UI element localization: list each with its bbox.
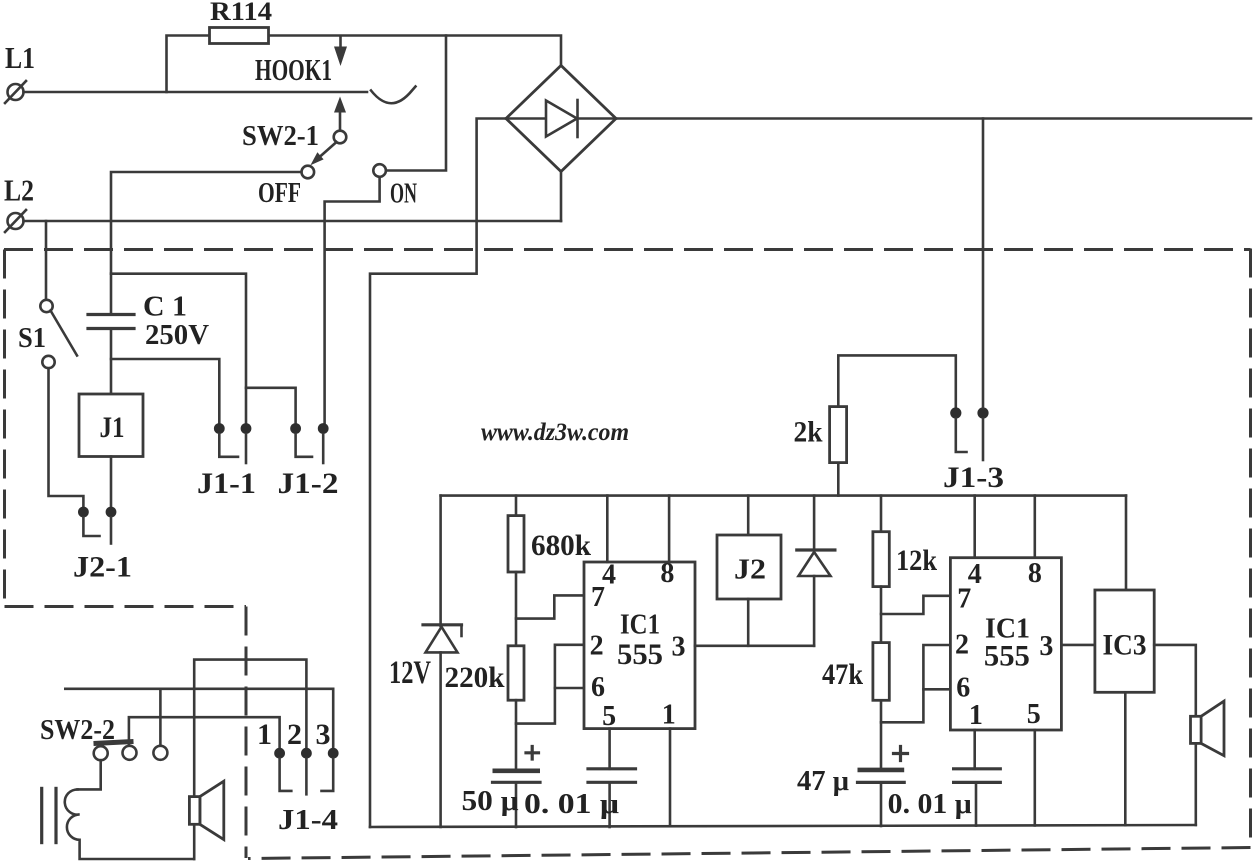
wire SW2-2 right to pin3 xyxy=(65,689,333,748)
svg-text:12k: 12k xyxy=(896,544,937,577)
svg-text:220k: 220k xyxy=(445,661,505,694)
wire inner top rail xyxy=(441,494,1126,497)
resistor 47k xyxy=(822,643,889,769)
svg-text:47k: 47k xyxy=(822,658,863,691)
svg-text:12V: 12V xyxy=(389,655,431,691)
svg-text:1: 1 xyxy=(257,718,272,751)
wire OFF to C1 xyxy=(111,172,301,315)
svg-text:0. 01 μ: 0. 01 μ xyxy=(524,789,619,820)
svg-text:7: 7 xyxy=(957,583,971,614)
wire top rail xyxy=(167,36,562,93)
wire pins2-6 jog IC1b xyxy=(881,645,950,722)
svg-text:J1: J1 xyxy=(100,411,125,444)
wire pin8 riser IC1a xyxy=(668,496,671,562)
terminal L1 xyxy=(5,40,35,103)
capacitor C1 xyxy=(88,291,209,352)
svg-text:1: 1 xyxy=(662,700,676,731)
capacitor 47u xyxy=(797,747,908,827)
wire pin7 jog IC1b xyxy=(881,596,950,614)
wire pins2-6 jog IC1a xyxy=(516,645,584,724)
svg-text:OFF: OFF xyxy=(258,177,301,209)
svg-text:2: 2 xyxy=(287,718,302,751)
svg-text:5: 5 xyxy=(1027,699,1041,730)
svg-text:J1-3: J1-3 xyxy=(943,461,1004,494)
wire S1 to J2-1 xyxy=(49,368,84,506)
svg-text:0. 01 μ: 0. 01 μ xyxy=(888,789,972,820)
capacitor 0.01u first xyxy=(524,769,636,827)
wire pin4 riser IC1b xyxy=(973,496,976,558)
wire pin5 drop IC1a xyxy=(608,729,611,769)
svg-text:R114: R114 xyxy=(210,0,272,26)
relay coil J1 xyxy=(79,394,143,457)
wire speaker-pin2 top link xyxy=(194,660,306,797)
svg-text:680k: 680k xyxy=(531,529,591,562)
contact J1-2 xyxy=(278,423,339,500)
svg-text:J2: J2 xyxy=(734,554,766,586)
wire bridge bottom to L2 xyxy=(560,172,563,222)
svg-text:HOOK1: HOOK1 xyxy=(255,52,332,87)
svg-text:L1: L1 xyxy=(5,40,35,75)
wire SW2-2 mid to pin1 xyxy=(129,717,280,747)
amplifier IC3 xyxy=(1095,590,1154,692)
svg-text:SW2-1: SW2-1 xyxy=(242,120,319,152)
svg-text:555: 555 xyxy=(617,638,663,671)
svg-text:250V: 250V xyxy=(145,319,209,351)
resistor 680k xyxy=(508,496,591,646)
svg-text:555: 555 xyxy=(984,639,1030,672)
wire pin3 IC1a xyxy=(695,644,814,647)
wire J1-3 riser xyxy=(982,119,985,408)
wire pin4 riser IC1a xyxy=(606,496,609,562)
resistor 220k xyxy=(445,646,525,769)
svg-text:IC1: IC1 xyxy=(620,610,660,641)
contact J1-4 pins xyxy=(257,718,339,836)
svg-text:3: 3 xyxy=(316,718,331,751)
svg-text:50 μ: 50 μ xyxy=(462,786,519,817)
wire bridge left to inner box xyxy=(370,119,506,828)
contact J1-3 xyxy=(943,407,1004,494)
svg-text:8: 8 xyxy=(660,558,674,589)
transformer core xyxy=(42,788,56,842)
wire pin7 jog IC1a xyxy=(516,595,584,618)
svg-text:3: 3 xyxy=(1039,631,1053,662)
op-amp timer U2 IC1 555 second xyxy=(950,558,1061,732)
svg-text:www.dz3w.com: www.dz3w.com xyxy=(481,419,629,446)
wire C1 branch to J1-1 xyxy=(111,359,219,423)
resistor 12k xyxy=(873,496,937,643)
watermark xyxy=(481,419,629,446)
switch S1 xyxy=(18,221,77,368)
speaker right xyxy=(1191,701,1225,756)
switch HOOK1 hook contact xyxy=(255,52,416,103)
wire pin1 drop IC1a xyxy=(669,729,672,826)
svg-text:2k: 2k xyxy=(794,416,823,449)
svg-text:ON: ON xyxy=(390,179,417,210)
arrow SW2-1 linkage up xyxy=(334,97,346,131)
resistor R114 xyxy=(210,0,273,44)
wire ON drop to J1-2 xyxy=(325,177,380,423)
arrow hook linkage down xyxy=(334,36,347,66)
capacitor 50u xyxy=(462,747,541,828)
resistor 2k xyxy=(794,355,956,495)
svg-text:6: 6 xyxy=(956,673,970,704)
dashed enclosure xyxy=(4,249,1251,859)
switch SW2-1 blade xyxy=(310,142,336,165)
svg-text:C 1: C 1 xyxy=(143,291,187,323)
relay coil J2 xyxy=(717,496,781,646)
contact J2-1 xyxy=(73,507,132,584)
svg-text:2: 2 xyxy=(955,630,969,661)
wire bridge J1-1 to J1-2 xyxy=(246,388,296,423)
switch SW2-1 common contact xyxy=(242,120,346,152)
speaker left xyxy=(189,781,223,859)
contact OFF xyxy=(258,166,314,209)
wire ON to top rail xyxy=(386,36,446,171)
svg-text:8: 8 xyxy=(1028,558,1042,589)
contact ON xyxy=(373,164,417,209)
svg-text:J1-4: J1-4 xyxy=(278,804,338,836)
wire pin3 IC1b to IC3 xyxy=(1061,644,1095,647)
svg-text:J2-1: J2-1 xyxy=(73,551,132,584)
wire SW2-2 left to coil xyxy=(78,760,101,789)
op-amp timer U1 IC1 555 xyxy=(584,558,695,732)
wire IC3 out to speaker xyxy=(1154,645,1196,825)
contact J1-1 xyxy=(197,423,256,500)
diode D1 xyxy=(797,496,835,646)
svg-text:47 μ: 47 μ xyxy=(797,766,849,797)
wire pin1 drop IC1b xyxy=(973,730,976,769)
wire IC3 bottom drop xyxy=(1124,692,1127,825)
switch SW2-2 xyxy=(40,714,167,760)
wire J1 bottom xyxy=(110,457,113,507)
capacitor 0.01u second xyxy=(888,769,1001,826)
svg-text:S1: S1 xyxy=(18,323,46,354)
svg-text:J1-2: J1-2 xyxy=(278,467,339,500)
zener diode 12V xyxy=(389,496,462,827)
wire branch to J1-1 right xyxy=(111,274,246,423)
svg-text:SW2-2: SW2-2 xyxy=(40,714,115,746)
terminal L2 xyxy=(4,173,34,233)
svg-text:L2: L2 xyxy=(4,173,34,208)
wire L1 line xyxy=(24,91,368,94)
wire pin5 drop IC1b xyxy=(1034,730,1037,825)
wire main DC line xyxy=(616,117,1251,120)
svg-text:IC3: IC3 xyxy=(1103,629,1147,662)
wire L2 line xyxy=(24,220,562,223)
svg-text:6: 6 xyxy=(591,672,605,703)
wire C1 to J1 xyxy=(110,329,113,395)
svg-text:3: 3 xyxy=(672,632,686,663)
svg-text:2: 2 xyxy=(590,630,604,661)
wire inner bottom rail xyxy=(370,825,1196,827)
svg-text:J1-1: J1-1 xyxy=(197,467,256,500)
svg-text:7: 7 xyxy=(591,582,605,613)
svg-text:1: 1 xyxy=(969,700,983,731)
wire rail corner to IC3 xyxy=(1125,496,1128,590)
inductor transformer coil xyxy=(65,789,194,859)
wire pin8 riser IC1b xyxy=(1034,496,1037,558)
bridge rectifier xyxy=(506,66,616,172)
